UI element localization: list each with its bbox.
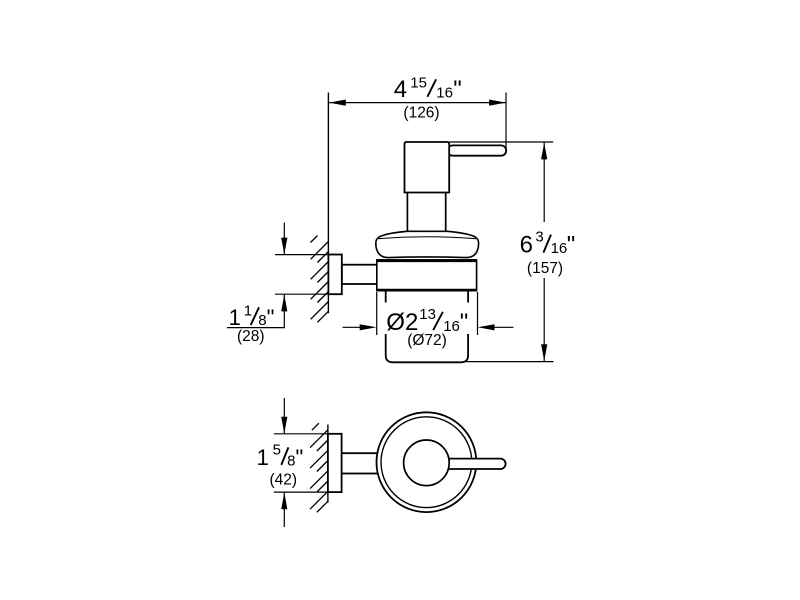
svg-text:": " <box>453 76 462 103</box>
extension line right of top dimension <box>505 93 507 151</box>
leader underline for 1 1/8" <box>227 327 285 329</box>
top dimension left arrowhead <box>329 100 346 106</box>
svg-text:1: 1 <box>229 305 241 330</box>
svg-text:(126): (126) <box>403 104 439 121</box>
svg-text:8: 8 <box>258 312 266 329</box>
wall plate (front view) <box>328 255 341 295</box>
svg-text:5: 5 <box>273 442 281 459</box>
mounting arm (front view) <box>342 265 378 284</box>
right dimension line lower segment <box>543 278 545 361</box>
svg-text:1: 1 <box>257 445 269 470</box>
pump head circle (plan view) <box>404 440 450 486</box>
svg-text:": " <box>460 309 469 336</box>
dome seam line <box>378 237 476 239</box>
white mask behind diameter text <box>383 303 473 335</box>
pump neck (front view) <box>407 193 445 231</box>
top dimension right arrowhead <box>489 100 506 106</box>
wall face line (front view) <box>327 93 329 314</box>
svg-text:1: 1 <box>244 302 252 319</box>
svg-text:": " <box>296 445 304 470</box>
svg-text:(157): (157) <box>527 260 563 277</box>
right dimension bottom arrowhead <box>541 344 547 361</box>
svg-text:16: 16 <box>436 84 453 101</box>
glass tumbler body (front view) <box>386 289 468 362</box>
extension line bottom (plate bottom extended) <box>275 293 342 295</box>
wall hatching (front view) <box>311 236 329 323</box>
extension line top (plate top extended, plan) <box>274 433 342 435</box>
svg-text:3: 3 <box>535 229 543 246</box>
top dimension line <box>329 102 506 104</box>
wall plate (plan view) <box>328 434 342 492</box>
svg-text:": " <box>567 232 576 259</box>
svg-text:8: 8 <box>287 452 295 469</box>
inner holder ring circle (plan view) <box>381 417 472 508</box>
right dimension line upper segment <box>543 143 545 222</box>
svg-text:15: 15 <box>410 75 427 92</box>
top dimension label 4 15/16" <box>394 75 462 104</box>
diameter label Ø2 13/16" <box>386 306 468 336</box>
left dimension upper line and arrow <box>283 223 285 255</box>
pump neck side edges <box>406 193 408 231</box>
right dimension top arrowhead <box>541 143 547 160</box>
svg-text:": " <box>267 305 275 330</box>
extension line top (plate top extended) <box>275 254 342 256</box>
svg-text:13: 13 <box>419 306 436 323</box>
svg-text:4: 4 <box>394 76 407 103</box>
pump head block (front view) <box>405 142 450 193</box>
plan dimension lower line and arrow <box>283 493 285 528</box>
outer holder ring circle (plan view) <box>377 412 477 512</box>
diameter right arrow and line <box>492 326 514 328</box>
left dimension lower line and arrow <box>283 295 285 328</box>
pump spout lever (front view) <box>448 145 507 155</box>
svg-text:(28): (28) <box>237 328 265 345</box>
wall face line (plan view) <box>327 425 329 503</box>
holder collar ring (front view) <box>377 260 477 291</box>
svg-text:(Ø72): (Ø72) <box>407 332 447 349</box>
extension line bottom (plate bottom extended, plan) <box>274 491 342 493</box>
plan dimension label 1 5/8" <box>257 442 304 470</box>
extension line bottom (glass bottom extended) <box>463 361 554 363</box>
svg-text:6: 6 <box>520 232 533 259</box>
collar bottom thick band <box>377 289 477 292</box>
mounting arm (plan view) <box>342 453 379 473</box>
plan dimension upper line and arrow <box>283 398 285 433</box>
svg-text:16: 16 <box>551 240 568 257</box>
extension line right of diameter <box>477 292 479 335</box>
wall hatching (plan view) <box>310 423 328 512</box>
svg-text:(42): (42) <box>270 471 298 488</box>
left dimension label 1 1/8" <box>229 302 275 329</box>
extension line top (head top edge extended) <box>449 141 553 143</box>
right dimension label 6 3/16" <box>520 229 576 259</box>
collar top thick band <box>377 259 477 262</box>
extension line left of diameter <box>376 292 378 335</box>
dispenser dome cap (front view) <box>376 231 479 257</box>
diameter left arrow and line <box>343 326 364 328</box>
pump lever (plan view) <box>442 459 506 469</box>
